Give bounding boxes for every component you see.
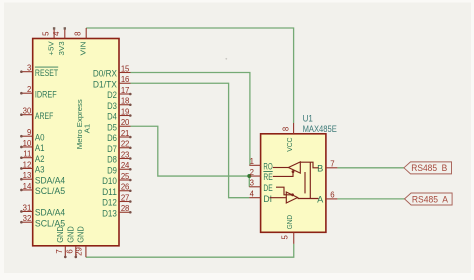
pin 28 D13 (right) (102, 204, 132, 218)
svg-text:1: 1 (250, 157, 254, 166)
pin 23 D8 (right) (107, 150, 132, 164)
pin 24 D9 (right) (107, 161, 132, 175)
pin 9 A0 (left) (20, 128, 44, 142)
wire D0/RX to RO (131, 73, 250, 166)
svg-text:DI: DI (263, 194, 272, 204)
pin 20 D5 (right) (107, 118, 130, 132)
svg-text:26: 26 (121, 183, 129, 192)
svg-text:RE: RE (263, 172, 272, 182)
svg-text:A2: A2 (35, 154, 45, 164)
svg-text:IDREF: IDREF (35, 89, 57, 99)
svg-text:5: 5 (41, 31, 50, 36)
svg-text:RESET: RESET (35, 68, 59, 78)
pin 4 DI (U1 left) (249, 190, 272, 204)
svg-text:D4: D4 (107, 112, 117, 122)
wire A to label (337, 198, 404, 200)
pin 16 D1/TX (right) (93, 75, 131, 89)
pin 21 D6 (right) (107, 129, 132, 143)
svg-text:D9: D9 (107, 165, 117, 175)
pin 13 SDA/A4 (left) (20, 171, 65, 185)
svg-text:23: 23 (121, 150, 129, 159)
svg-text:9: 9 (27, 128, 31, 137)
svg-text:32: 32 (23, 214, 32, 223)
DE enable link (276, 187, 294, 196)
svg-text:31: 31 (23, 203, 32, 212)
pin 4 3V3 (top) (52, 27, 66, 55)
svg-text:7: 7 (330, 160, 334, 169)
RE enable link (273, 170, 295, 176)
svg-text:8: 8 (282, 127, 291, 131)
wire junction to DE (248, 176, 250, 187)
global label RS485 B (404, 162, 452, 174)
svg-text:SDA/A4: SDA/A4 (35, 175, 65, 185)
svg-text:A0: A0 (35, 132, 45, 142)
wire B to label (337, 167, 404, 169)
svg-text:B: B (317, 164, 323, 174)
svg-text:D10: D10 (102, 176, 117, 186)
svg-text:D1/TX: D1/TX (93, 79, 117, 89)
pin 14 SCL/A5 (left) (20, 182, 65, 196)
svg-text:D11: D11 (102, 187, 117, 197)
pin 8 VIN (top) (73, 28, 87, 55)
svg-text:27: 27 (121, 193, 129, 202)
pin 29 GND (bottom) (75, 226, 86, 257)
board A1 Metro Express body (33, 39, 119, 246)
svg-text:12: 12 (23, 160, 32, 169)
svg-text:GND: GND (56, 226, 65, 243)
stray mark (225, 58, 227, 60)
svg-text:20: 20 (121, 118, 130, 127)
svg-text:D3: D3 (107, 101, 117, 111)
svg-text:D7: D7 (107, 144, 117, 154)
receiver buffer triangle (273, 162, 319, 173)
pin 3 RESET (left) (20, 64, 58, 78)
op-amp U1 MAX485E body (261, 134, 326, 233)
svg-text:13: 13 (23, 171, 32, 180)
pin 7 B (U1 right) (317, 160, 337, 174)
svg-text:D13: D13 (102, 208, 117, 218)
driver buffer triangle (286, 162, 318, 203)
pin 32 SCL/A5 (left) (20, 214, 65, 228)
svg-text:DE: DE (263, 183, 272, 193)
pin 27 D12 (right) (102, 193, 132, 207)
pin 5 GND (U1 bottom) (280, 214, 294, 243)
svg-text:D12: D12 (102, 198, 117, 208)
svg-text:22: 22 (121, 140, 129, 149)
pin 6 A (U1 right) (317, 191, 337, 205)
svg-text:3: 3 (250, 179, 254, 188)
svg-text:D0/RX: D0/RX (93, 69, 117, 79)
svg-text:A1: A1 (35, 143, 45, 153)
svg-text:RO: RO (263, 161, 272, 171)
pin 5 +5V (top) (41, 27, 55, 55)
svg-text:+5V: +5V (46, 41, 55, 55)
svg-text:28: 28 (121, 204, 129, 213)
svg-text:4: 4 (52, 31, 61, 36)
svg-text:MAX485E: MAX485E (303, 124, 337, 134)
pin 1 RO (U1 left) (249, 157, 272, 171)
svg-text:25: 25 (121, 172, 130, 181)
svg-text:VCC: VCC (285, 137, 294, 152)
pin 10 A1 (left) (20, 139, 44, 153)
RE overline (263, 171, 272, 173)
svg-text:SCL/A5: SCL/A5 (35, 186, 65, 196)
junction RE/DE (247, 174, 251, 178)
pin 31 SDA/A4 (left) (20, 203, 65, 217)
svg-text:19: 19 (121, 107, 129, 116)
svg-text:30: 30 (23, 107, 32, 116)
pin 12 A3 (left) (20, 160, 44, 174)
svg-text:3: 3 (27, 64, 31, 73)
svg-text:SDA/A4: SDA/A4 (35, 208, 65, 218)
wire GND bottom (86, 244, 294, 257)
svg-text:24: 24 (121, 161, 130, 170)
svg-text:U1: U1 (303, 114, 313, 124)
pin 8 VCC (U1 top) (282, 123, 294, 152)
global label RS485 A (405, 193, 453, 205)
svg-text:21: 21 (121, 129, 129, 138)
svg-text:17: 17 (121, 86, 129, 95)
svg-text:VIN: VIN (78, 41, 87, 55)
svg-text:4: 4 (250, 190, 255, 199)
pin 2 IDREF (left) (20, 85, 57, 99)
svg-text:6: 6 (330, 191, 334, 200)
wire VIN to VCC (86, 28, 293, 123)
pin 3 DE (U1 left) (249, 179, 272, 193)
DI input link (270, 197, 287, 199)
wire D1/TX to DI (131, 83, 250, 197)
svg-text:A1: A1 (83, 124, 92, 133)
svg-text:A: A (317, 195, 324, 205)
svg-text:GND: GND (285, 214, 294, 229)
wire D5 to RE (131, 126, 250, 176)
svg-text:D5: D5 (107, 122, 117, 132)
svg-text:18: 18 (121, 97, 129, 106)
svg-text:15: 15 (121, 64, 130, 73)
svg-text:AREF: AREF (35, 111, 54, 121)
svg-text:8: 8 (73, 31, 82, 35)
pin 17 D2 (right) (107, 86, 132, 100)
svg-text:6: 6 (66, 249, 75, 253)
svg-text:RS485 A: RS485 A (412, 194, 449, 204)
svg-text:D6: D6 (107, 133, 117, 143)
svg-text:3V3: 3V3 (57, 41, 66, 55)
svg-text:RS485 B: RS485 B (411, 163, 447, 173)
svg-text:GND: GND (77, 226, 86, 243)
pin 25 D10 (right) (102, 172, 132, 186)
svg-text:10: 10 (23, 139, 32, 148)
svg-text:29: 29 (75, 247, 84, 256)
svg-text:14: 14 (23, 182, 32, 191)
svg-text:7: 7 (55, 249, 64, 253)
svg-text:2: 2 (27, 85, 31, 94)
svg-text:16: 16 (121, 75, 129, 84)
pin 7 GND (bottom) (55, 226, 67, 258)
pin 15 D0/RX (right) (93, 64, 131, 78)
pin 19 D4 (right) (107, 107, 132, 121)
svg-text:D2: D2 (107, 90, 117, 100)
pin 30 AREF (left) (20, 107, 53, 121)
svg-text:A3: A3 (35, 165, 45, 175)
pin 22 D7 (right) (107, 140, 132, 154)
svg-text:GND: GND (67, 226, 76, 243)
pin 18 D3 (right) (107, 97, 132, 111)
pin 2 RE (U1 left) (249, 168, 272, 182)
pin 11 A2 (left) (20, 150, 44, 164)
svg-text:D8: D8 (107, 155, 117, 165)
svg-text:11: 11 (23, 150, 31, 159)
pin 26 D11 (right) (102, 183, 132, 197)
svg-text:2: 2 (250, 168, 254, 177)
pin 6 GND (bottom) (66, 226, 78, 258)
svg-text:5: 5 (280, 234, 289, 239)
